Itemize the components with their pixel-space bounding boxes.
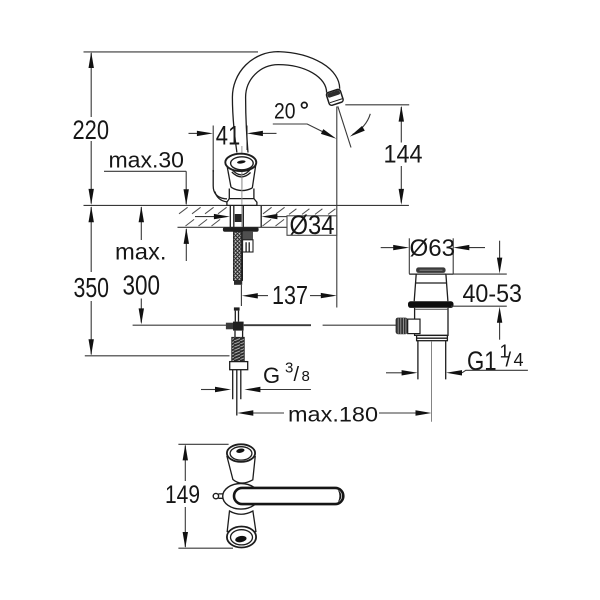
drain plug inner line	[416, 282, 447, 284]
shank ferrule	[234, 281, 242, 285]
deck hole edge left	[229, 206, 231, 227]
hose center line	[240, 285, 242, 306]
arrow dia34 left	[195, 216, 215, 218]
drain collar	[417, 335, 448, 340]
plan spout tube	[234, 488, 343, 504]
arrow max30 up at deck bottom	[184, 228, 189, 244]
40-53 bottom reference line	[451, 305, 507, 307]
arrow angle arc	[350, 126, 365, 137]
G1 1/4 underline leader	[462, 370, 528, 373]
arrow G114 left	[402, 370, 418, 375]
nozzle vertical extension line	[336, 107, 338, 308]
arrow max300 bottom	[139, 308, 144, 324]
mounting washer	[223, 227, 259, 232]
svg-text:G1: G1	[467, 346, 497, 376]
41 right extension line	[246, 126, 248, 151]
plan top handle outer ellipse	[227, 444, 255, 462]
dim dia63 line left	[381, 247, 394, 249]
handle cap skirt arc 1	[231, 168, 252, 175]
handle cone side left	[227, 164, 231, 187]
svg-text:max.30: max.30	[109, 147, 185, 172]
deck top line	[84, 204, 409, 206]
drain knob connector	[408, 319, 420, 334]
handle top ellipse outer	[225, 154, 256, 171]
plan top handle dash	[236, 448, 245, 454]
svg-text:G: G	[263, 363, 280, 388]
threaded connector	[232, 337, 245, 361]
arrow 41 right	[247, 131, 263, 136]
arrow dia63 right	[453, 245, 469, 250]
dim 40-53 top line	[499, 241, 501, 259]
dim 149 vertical line	[184, 446, 186, 548]
arrow 40-53 bottom	[497, 307, 502, 323]
svg-text:40-53: 40-53	[463, 280, 523, 308]
handle cap skirt arc 2	[232, 172, 251, 177]
under-flange shadow line	[415, 308, 448, 310]
tee left hub	[226, 323, 233, 330]
arrow 144 bottom	[399, 189, 404, 205]
dim max180 line left	[253, 412, 284, 414]
hose tails	[233, 370, 241, 400]
dim 350 vertical line	[90, 207, 92, 355]
arrow G114 right	[446, 370, 462, 375]
center axis over body	[241, 172, 243, 205]
dia34 label box	[287, 216, 337, 236]
svg-text:Ø34: Ø34	[290, 210, 335, 240]
faucet center axis	[241, 146, 243, 227]
40-53 top reference line	[446, 273, 507, 275]
svg-text:3: 3	[285, 360, 293, 377]
drain rim line	[409, 273, 453, 275]
supply pipe left segment	[133, 324, 227, 326]
svg-text:Ø63: Ø63	[410, 235, 456, 262]
handle index dash	[237, 160, 246, 164]
dim max180 line right	[379, 412, 416, 414]
svg-text:max.180: max.180	[288, 404, 378, 427]
arrow 40-53 top	[497, 258, 502, 274]
dim 350 bottom reference line	[85, 355, 230, 357]
dim G38 line left	[201, 389, 216, 391]
arrow 41 left	[197, 131, 213, 136]
plan bottom handle cone	[227, 511, 256, 532]
left hook nub	[213, 170, 227, 199]
arrow dia63 left	[393, 245, 409, 250]
drain body	[415, 308, 448, 336]
arrow max300 top	[139, 206, 144, 222]
svg-text:149: 149	[165, 481, 200, 509]
svg-text:4: 4	[514, 350, 524, 370]
plan bottom handle outer ellipse	[227, 527, 256, 548]
deck hatching row B	[186, 219, 285, 226]
plan side nub ball	[213, 493, 218, 498]
arrow 350 bottom	[89, 339, 94, 355]
shank through deck right wall	[242, 206, 244, 227]
drain plug cap	[416, 267, 446, 273]
arrow 220 bottom	[89, 189, 94, 205]
handle cone bottom arc	[231, 187, 252, 190]
tee block	[233, 322, 244, 331]
svg-text:220: 220	[73, 115, 110, 145]
braided shank	[233, 232, 242, 281]
supply pin shaft	[235, 311, 238, 322]
plan bottom handle dash	[235, 535, 247, 543]
dim 144 vertical line	[400, 107, 402, 203]
svg-text:20: 20	[274, 99, 296, 124]
dim 41 line left	[189, 132, 199, 134]
dim 41 line right	[261, 132, 277, 134]
spout outer arc	[232, 52, 339, 153]
41 left extension line	[212, 126, 214, 173]
supply pin cap	[234, 307, 240, 310]
angle arc	[353, 114, 371, 135]
shank nut dark block	[235, 214, 242, 222]
arrow max30 down at deck top	[184, 189, 189, 205]
arrow max180 right	[416, 410, 432, 415]
drain plug body	[414, 274, 448, 301]
dim G114 line left	[386, 372, 402, 374]
plan top handle inner ellipse	[230, 447, 252, 460]
plan tube end crescent	[338, 490, 341, 502]
plan view: 149 tick bottom	[178, 547, 233, 549]
plan side nub stem	[218, 494, 223, 498]
svg-text:350: 350	[74, 272, 110, 303]
svg-text:137: 137	[272, 280, 308, 310]
plan top handle cone	[227, 457, 255, 484]
arrow 20deg leader	[321, 129, 337, 139]
drain tailpipe	[418, 341, 446, 380]
plan body ellipse	[223, 484, 259, 510]
degree ring	[302, 102, 308, 108]
svg-text:/: /	[506, 349, 512, 371]
escutcheon base	[227, 199, 257, 206]
svg-text:144: 144	[384, 141, 423, 169]
dia63 extension line right	[452, 238, 454, 273]
dim dia63 line right	[469, 247, 485, 249]
arrow 149 top	[183, 444, 188, 460]
deck bottom line	[178, 226, 288, 228]
spout inner arc	[246, 65, 327, 153]
drain flange	[408, 301, 454, 308]
nozzle	[326, 89, 344, 106]
max.30 leader underline	[104, 171, 186, 204]
svg-text:max.: max.	[115, 239, 167, 265]
arrow 137 left	[242, 293, 258, 298]
max.30 lower leader line	[185, 229, 187, 261]
drain knob	[396, 318, 408, 335]
20deg leader line	[273, 124, 325, 133]
tee lower neck	[235, 331, 243, 338]
handle cone side right	[252, 164, 256, 188]
body cylinder	[229, 189, 254, 199]
drain center line	[431, 341, 433, 422]
arrow dia34 right	[277, 216, 287, 218]
dim 137 line left	[256, 295, 268, 297]
dim 220 vertical line	[90, 53, 92, 204]
arrow 144 top	[399, 106, 404, 122]
plan view: 149 tick top	[178, 443, 228, 445]
dim 137 line right	[310, 295, 322, 297]
arrow max180 left	[237, 410, 253, 415]
dim 144 top reference line	[345, 104, 409, 106]
plan bottom handle inner ellipse	[231, 530, 253, 545]
dim G38 line right	[260, 389, 311, 391]
svg-text:/: /	[294, 364, 300, 386]
arrow 149 bottom	[183, 532, 188, 548]
arrow G38 left	[215, 387, 231, 392]
handle top ellipse inner	[231, 157, 254, 170]
deck hole edge right	[260, 206, 262, 227]
arrow 220 top	[89, 52, 94, 68]
dia63 extension line left	[408, 238, 410, 273]
nozzle 20deg direction line	[338, 106, 351, 147]
mounting bracket	[243, 232, 253, 240]
arrow 350 top	[89, 206, 94, 222]
connector nut	[230, 362, 248, 370]
top reference line (spout height datum)	[84, 51, 259, 53]
supply pipe after break	[323, 324, 396, 326]
supply pipe right segment	[244, 324, 311, 326]
dim max300 vertical line	[140, 207, 142, 323]
svg-text:8: 8	[302, 368, 310, 385]
shank through deck left wall	[233, 206, 235, 227]
arrow 137 right	[321, 293, 337, 298]
arrow G38 right	[244, 387, 260, 392]
svg-text:300: 300	[123, 270, 161, 301]
dim 40-53 bottom line	[499, 322, 501, 340]
deck hatching row A	[179, 207, 335, 226]
